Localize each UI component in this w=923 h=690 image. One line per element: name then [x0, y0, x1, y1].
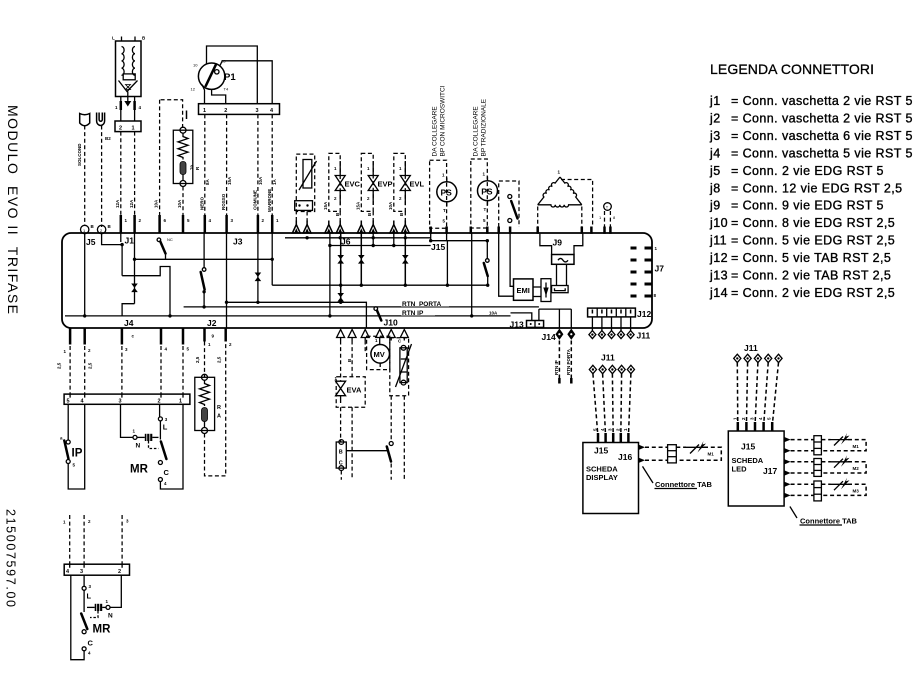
svg-text:j8= Conn. 12 vie EDG RST 2,5: j8= Conn. 12 vie EDG RST 2,5 [709, 181, 903, 195]
wire J10 col1-col2 drops [341, 341, 353, 382]
pressostat P1 (rotary) [191, 59, 237, 92]
label J11 (led harness) [744, 343, 758, 353]
connector J3 pins 4,3,2,1 [205, 215, 279, 233]
motor fan MV [367, 336, 390, 369]
svg-text:LEGENDA CONNETTORI: LEGENDA CONNETTORI [710, 61, 874, 77]
wire P1 pin4 [220, 61, 273, 104]
svg-text:2,5: 2,5 [217, 356, 222, 363]
wire P1 pin2 [212, 89, 226, 103]
svg-text:j13= Conn. 2 vie TAB RST 2,5: j13= Conn. 2 vie TAB RST 2,5 [709, 269, 891, 283]
connector J13 (2 way TAB) [527, 321, 544, 328]
sensor NTC assembly (dashed box) [295, 154, 317, 221]
label J15 (board) [431, 242, 445, 252]
svg-text:J11: J11 [601, 353, 615, 363]
wire EVA lower drops [341, 407, 353, 480]
terminal SOLCOND (cup) [77, 114, 90, 226]
wire J12 stems [592, 317, 630, 331]
connector J12 (5 way TAB) [588, 308, 636, 317]
wire J14 funnel [539, 309, 571, 328]
svg-text:3: 3 [80, 569, 83, 575]
svg-text:Connettore TAB: Connettore TAB [800, 517, 858, 526]
svg-text:MR: MR [130, 464, 149, 476]
label J1 [125, 236, 135, 246]
solenoid valve EVP [356, 153, 393, 221]
svg-text:1A: 1A [272, 178, 277, 185]
note DA COLLEGARE BP TRADIZIONALE [473, 98, 488, 156]
svg-text:DA COLLEGARE: DA COLLEGARE [473, 106, 480, 157]
wire P1 pin1 [202, 85, 205, 104]
svg-text:j9= Conn. 9 vie EDG RST 5: j9= Conn. 9 vie EDG RST 5 [709, 199, 884, 213]
svg-text:RTN_PORTA: RTN_PORTA [402, 301, 442, 308]
connector J15 bus pins [431, 227, 611, 234]
solenoid valve EVC [323, 153, 361, 221]
svg-text:M1: M1 [853, 444, 860, 449]
svg-text:10A: 10A [489, 311, 498, 316]
connector J17 arrows [784, 437, 791, 498]
svg-text:2,5: 2,5 [195, 356, 200, 363]
svg-text:10: 10 [193, 63, 198, 68]
svg-text:EVL: EVL [410, 180, 425, 189]
svg-text:j3= Conn. vaschetta 6 vie RST: j3= Conn. vaschetta 6 vie RST 5 [709, 129, 913, 143]
svg-text:j2= Conn. vaschetta 2 vie RST: j2= Conn. vaschetta 2 vie RST 5 [709, 111, 913, 125]
svg-text:J11: J11 [744, 343, 758, 353]
wire J16 to TAB connector [645, 445, 686, 463]
svg-text:J5: J5 [86, 237, 96, 247]
svg-text:j14= Conn. 2 vie EDG RST 2,5: j14= Conn. 2 vie EDG RST 2,5 [709, 286, 895, 300]
svg-text:N: N [108, 613, 113, 620]
connector J3 pins 6,5 [154, 199, 191, 233]
label J7 [654, 246, 665, 298]
svg-text:NERO: NERO [200, 196, 205, 210]
svg-text:12A: 12A [115, 199, 120, 208]
wire PS feeds internal [447, 233, 514, 316]
svg-text:C: C [339, 461, 343, 467]
svg-text:10A: 10A [177, 199, 182, 208]
note Connettore TAB (led) [790, 507, 858, 526]
svg-text:J14: J14 [542, 332, 556, 342]
board SCHEDA DISPLAY [583, 443, 639, 514]
connector J11 (board diamonds) [589, 331, 634, 339]
switch internal BP [484, 259, 489, 286]
svg-text:j12= Conn. 5 vie TAB RST 2,5: j12= Conn. 5 vie TAB RST 2,5 [709, 251, 891, 265]
wire internal H6 [225, 233, 367, 328]
connector J6 crown terminals (8x) [292, 221, 409, 234]
door switch (dashed box) [499, 181, 519, 227]
svg-text:J17: J17 [763, 466, 777, 476]
svg-text:MV: MV [374, 350, 385, 359]
connector J11 led diamonds [734, 354, 782, 362]
svg-text:15A: 15A [323, 201, 328, 210]
svg-text:j5= Conn. 2 vie EDG RST 5: j5= Conn. 2 vie EDG RST 5 [709, 164, 884, 178]
svg-text:T: T [484, 207, 487, 212]
svg-text:J16: J16 [618, 452, 632, 462]
svg-text:J1: J1 [125, 236, 135, 246]
terminal B2 (fork) [97, 113, 112, 228]
svg-text:2,5: 2,5 [57, 362, 62, 369]
svg-text:PS: PS [481, 186, 493, 196]
svg-text:1: 1 [203, 108, 206, 114]
title MODULO EVO II TRIFASE [5, 105, 21, 314]
wire led row 1 with TAB connector and lamp M1 [791, 433, 867, 455]
svg-text:12: 12 [191, 87, 196, 92]
switch J10 internal [374, 307, 381, 321]
fuse symbols internal [131, 255, 408, 302]
legend title LEGENDA CONNETTORI [710, 61, 874, 77]
wires pump to connector box [115, 97, 142, 122]
svg-text:BP CON MICROSWITCI: BP CON MICROSWITCI [440, 85, 447, 156]
svg-text:ROSSO: ROSSO [221, 193, 226, 210]
switch IP [60, 404, 85, 489]
svg-text:EVP: EVP [378, 180, 393, 189]
svg-text:15A: 15A [227, 176, 232, 185]
terminal block 2 (3 way) [64, 564, 129, 575]
svg-text:RTN IP: RTN IP [402, 310, 424, 317]
svg-text:10A: 10A [388, 201, 393, 210]
switch internal K2 [201, 233, 206, 309]
resistor RA with capacitor (anti-interference) [195, 342, 226, 476]
svg-text:T4: T4 [224, 87, 229, 92]
connector J9 funnel and filter box [540, 234, 583, 286]
svg-text:B: B [339, 450, 343, 456]
svg-text:5: 5 [67, 399, 70, 405]
svg-text:EMI: EMI [517, 286, 530, 295]
wire J15 link [429, 233, 489, 259]
solenoid valve EVA [335, 376, 366, 407]
label J6 [341, 237, 351, 247]
svg-text:3: 3 [119, 399, 122, 405]
wire lower drops from J10 cols (right pair) [390, 396, 392, 442]
legend lines j1-j14 [709, 94, 913, 300]
pressure switch PS (microswitch type) [430, 160, 457, 228]
wire EMI links [533, 287, 541, 297]
label J3 [233, 237, 243, 247]
wire internal H3 [135, 233, 490, 287]
wire internal J5/J1 left [83, 233, 172, 318]
svg-text:NC: NC [167, 237, 173, 242]
wire J1 dashed columns [115, 132, 135, 216]
connector J16 arrows [639, 445, 646, 463]
connector J2 pins below board [195, 328, 232, 363]
solenoid valve EVL [388, 153, 425, 221]
wire link and switch (door lower) [346, 396, 404, 480]
label J13 [510, 320, 524, 330]
svg-text:N: N [136, 443, 141, 450]
wire led harness dashed [732, 363, 778, 431]
svg-text:L: L [87, 592, 92, 601]
svg-text:J12: J12 [637, 309, 651, 319]
svg-text:1: 1 [132, 126, 135, 132]
svg-text:DA COLLEGARE: DA COLLEGARE [432, 106, 439, 157]
svg-text:2: 2 [158, 399, 161, 405]
board outline (main module) [62, 233, 652, 328]
wire bus line J6 internal [285, 236, 431, 239]
label J11 (board) [637, 331, 651, 341]
svg-text:8A: 8A [205, 178, 210, 185]
svg-text:L: L [163, 423, 168, 432]
svg-text:12A: 12A [129, 199, 134, 208]
svg-text:J15: J15 [741, 442, 755, 452]
note DA COLLEGARE BP CON MICROSWITCI [432, 85, 447, 156]
wire J13 links [511, 309, 539, 320]
resistor R dashed enclosure [160, 100, 187, 216]
svg-text:M1: M1 [708, 452, 715, 457]
label J2 [207, 318, 217, 328]
svg-text:j4= Conn. vaschetta 5 vie RST: j4= Conn. vaschetta 5 vie RST 5 [709, 146, 913, 160]
svg-text:1: 1 [179, 399, 182, 405]
label J14 [542, 332, 556, 342]
svg-text:MARRONE: MARRONE [267, 189, 272, 212]
note Connettore TAB (display) [643, 466, 713, 489]
svg-text:J10: J10 [384, 318, 398, 328]
label J12 [637, 309, 651, 319]
svg-text:2: 2 [119, 126, 122, 132]
wire led row 2 with TAB connector and lamp M2 [791, 455, 867, 476]
wire J10 col3 [364, 341, 366, 353]
label J11 (display harness) [601, 353, 615, 363]
label J5 [86, 237, 96, 247]
svg-text:J15: J15 [594, 446, 608, 456]
lamp M1 (display) [676, 441, 721, 460]
svg-text:L: L [112, 36, 115, 41]
svg-text:70: 70 [190, 164, 195, 170]
svg-text:2: 2 [224, 108, 227, 114]
wire J14 drops [554, 341, 571, 384]
terminal block timer (5 way) [64, 394, 190, 405]
thermal sensor T [599, 203, 616, 227]
heating element [552, 286, 569, 293]
svg-text:3: 3 [256, 108, 259, 114]
relay MR coil and contacts [121, 404, 184, 489]
connector J4 pins below board [57, 328, 190, 369]
svg-text:COMUNE: COMUNE [253, 190, 258, 210]
EMI filter [514, 279, 534, 300]
svg-text:J15: J15 [431, 242, 445, 252]
wire internal verticals J6 group [328, 233, 407, 318]
pressure switch PS (traditional) [471, 159, 498, 228]
svg-text:B2: B2 [105, 136, 111, 141]
wire RTN_PORTA [184, 299, 539, 309]
svg-text:j11= Conn. 5 vie EDG RST 2,5: j11= Conn. 5 vie EDG RST 2,5 [709, 234, 895, 248]
connector J7 pin marks [631, 248, 653, 296]
svg-text:10A: 10A [258, 176, 263, 185]
switch internal K1 [157, 237, 173, 259]
svg-text:J7: J7 [655, 264, 665, 274]
motor three-phase windings (triangle) [538, 170, 593, 228]
svg-text:C: C [164, 468, 170, 477]
svg-text:J2: J2 [207, 318, 217, 328]
pump outlet arrow [124, 97, 131, 107]
svg-text:C: C [88, 639, 94, 648]
svg-text:A: A [217, 414, 221, 420]
svg-text:R: R [217, 405, 221, 411]
connector J10 terminals (triangles) [337, 330, 409, 341]
connector J14 terminals [555, 329, 575, 340]
svg-text:RTN IP: RTN IP [554, 360, 559, 375]
svg-text:T: T [443, 208, 446, 213]
wire P1 pin3 [207, 46, 258, 104]
svg-text:RTN PORTA: RTN PORTA [566, 348, 571, 375]
board SCHEDA LED [728, 431, 784, 506]
svg-text:LED: LED [732, 465, 748, 474]
capacitor motor (variable) [390, 338, 412, 396]
svg-text:M2: M2 [853, 466, 860, 471]
connector J5 ring terminals 1,2 [81, 224, 112, 234]
svg-text:J13: J13 [510, 320, 524, 330]
svg-text:Connettore TAB: Connettore TAB [655, 480, 713, 489]
wire J3 dashed columns [200, 114, 278, 216]
svg-text:J9: J9 [553, 238, 563, 248]
label J4 [124, 318, 135, 339]
motor/pump M with two windings (top-left) [112, 36, 146, 97]
svg-text:DISPLAY: DISPLAY [586, 473, 618, 482]
connector box 2-1 under pump [115, 121, 141, 132]
svg-text:J11: J11 [637, 331, 651, 341]
wire led row 3 with TAB connector and lamp M3 [791, 478, 867, 501]
svg-text:SOLCOND: SOLCOND [77, 143, 82, 166]
svg-text:10A: 10A [154, 199, 159, 208]
label J9 [553, 238, 563, 248]
connector J1 pins [121, 215, 142, 233]
svg-text:IP: IP [72, 448, 83, 460]
connector box J3 top (4 way) [199, 104, 280, 115]
svg-text:J4: J4 [124, 318, 134, 328]
svg-text:P1: P1 [224, 72, 236, 83]
svg-text:PS: PS [441, 188, 453, 198]
wire display harness dashed [593, 374, 631, 443]
relay MR2 [71, 575, 122, 660]
svg-text:j10= Conn. 8 vie EDG RST 2,5: j10= Conn. 8 vie EDG RST 2,5 [709, 216, 895, 230]
wire bus line 2 internal [328, 244, 431, 247]
svg-text:15A: 15A [356, 201, 361, 210]
varistor box with arrow [541, 279, 551, 302]
label J10 [384, 318, 398, 328]
wire internal fused column [256, 233, 259, 304]
block MR2 dashed drops [63, 515, 129, 564]
part number 215007597.00 [4, 509, 18, 607]
resistor R with thermal fuse [173, 127, 200, 215]
svg-text:MODULO EVO II TRIFASE: MODULO EVO II TRIFASE [5, 105, 21, 314]
svg-text:2,5: 2,5 [88, 362, 93, 369]
svg-text:EVC: EVC [345, 180, 361, 189]
interference suppressor B-C [336, 440, 346, 480]
svg-text:j1= Conn. vaschetta 2 vie RST: j1= Conn. vaschetta 2 vie RST 5 [709, 94, 913, 108]
wire RTN IP [65, 308, 511, 318]
wire J4 dashed drops [70, 346, 183, 394]
svg-text:215007597.00: 215007597.00 [4, 509, 18, 607]
svg-text:BP TRADIZIONALE: BP TRADIZIONALE [481, 98, 488, 156]
svg-text:EVA: EVA [347, 386, 362, 395]
svg-text:J3: J3 [233, 237, 243, 247]
svg-text:2: 2 [118, 569, 121, 575]
svg-text:M3: M3 [853, 489, 860, 494]
connector J11 display diamonds [589, 365, 634, 373]
svg-text:MR: MR [93, 624, 112, 636]
